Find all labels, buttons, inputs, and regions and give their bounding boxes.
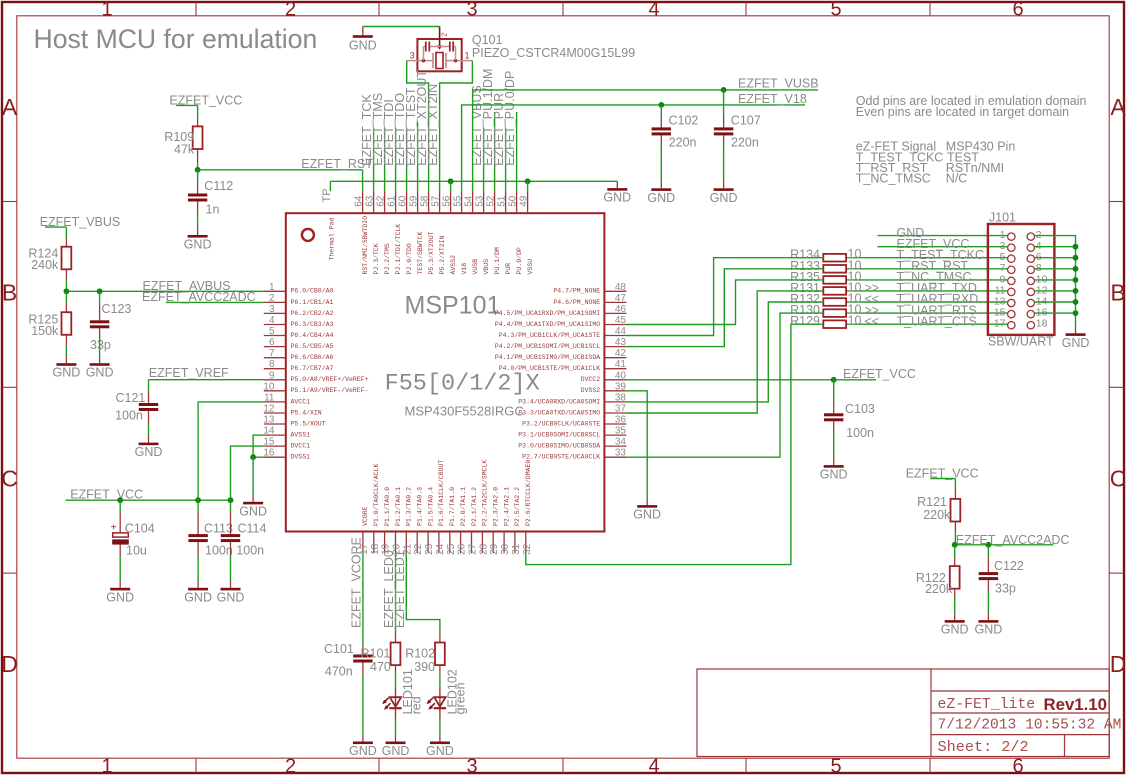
svg-text:R121: R121 bbox=[917, 495, 947, 509]
svg-text:GND: GND bbox=[1062, 336, 1090, 350]
pin wire C122 top bbox=[987, 558, 989, 572]
svg-text:GND: GND bbox=[975, 623, 1003, 637]
svg-text:EZFET_AVCC2ADC: EZFET_AVCC2ADC bbox=[956, 533, 1070, 547]
wire R122 to GND bbox=[954, 598, 956, 613]
svg-text:C107: C107 bbox=[731, 113, 761, 127]
svg-text:D: D bbox=[1110, 651, 1126, 677]
MCU pin 32 stub bbox=[522, 460, 533, 555]
svg-text:P4.5/PM_UCA1RXD/PM_UCA1SOMI: P4.5/PM_UCA1RXD/PM_UCA1SOMI bbox=[495, 310, 600, 317]
wire AVBUS junction down to R125 bbox=[65, 291, 67, 303]
MCU pin 36 stub bbox=[522, 415, 626, 428]
svg-text:C104: C104 bbox=[125, 521, 155, 535]
svg-text:45: 45 bbox=[615, 315, 627, 326]
svg-text:43: 43 bbox=[615, 337, 627, 348]
svg-text:33: 33 bbox=[615, 448, 627, 459]
wire XT2IN from crystal pin1 bbox=[440, 61, 473, 192]
J101 pin 13 pad bbox=[994, 295, 1015, 307]
svg-text:B: B bbox=[1110, 280, 1125, 306]
J101 pin 1 pad bbox=[1000, 229, 1015, 241]
MCU pin 55 stub bbox=[453, 191, 468, 274]
wire T_NC_TMSC resistor to J101 pin 9 bbox=[846, 279, 1008, 281]
wire EZFET_PU.1/DM to pin 52 bbox=[494, 112, 496, 191]
MCU pin 35 stub bbox=[518, 426, 626, 439]
ground GND below LED102 bbox=[426, 735, 454, 758]
MCU pin 59 stub bbox=[409, 191, 424, 274]
resistor R130 10 bbox=[790, 303, 861, 318]
capacitor C103 100n bbox=[824, 402, 875, 440]
svg-text:P1.1/TA0.0: P1.1/TA0.0 bbox=[384, 487, 391, 526]
MCU pin 49 stub bbox=[519, 191, 534, 274]
svg-text:EZFET_V18: EZFET_V18 bbox=[738, 92, 807, 106]
svg-text:9: 9 bbox=[269, 370, 275, 381]
wire R121 to AVCC2ADC bbox=[954, 532, 956, 545]
pin wire C121 bottom bbox=[148, 411, 150, 423]
svg-text:30: 30 bbox=[500, 543, 511, 555]
capacitor C104 10u polarized bbox=[111, 521, 155, 557]
svg-text:390: 390 bbox=[414, 660, 435, 674]
svg-text:GND: GND bbox=[710, 191, 738, 205]
svg-text:GND: GND bbox=[53, 366, 81, 380]
svg-text:Sheet: 2/2: Sheet: 2/2 bbox=[938, 738, 1029, 756]
svg-text:100n: 100n bbox=[115, 409, 143, 423]
wire T_UART_RTS resistor to J101 pin 15 bbox=[846, 312, 1008, 314]
J101 pin 14 pad bbox=[1027, 295, 1048, 307]
wire AVCC2ADC to R122 bbox=[954, 545, 956, 557]
MCU pin 61 stub bbox=[387, 191, 402, 274]
net EZFET_VCC wire from pin 40 bbox=[626, 379, 876, 381]
svg-text:TEST/SBWTCK: TEST/SBWTCK bbox=[417, 231, 424, 274]
J101 pin 10 pad bbox=[1027, 273, 1048, 285]
svg-text:17: 17 bbox=[994, 318, 1006, 330]
svg-text:C121: C121 bbox=[116, 391, 146, 405]
resistor R102 390 bbox=[405, 643, 445, 674]
wire GND bus from TP bbox=[330, 180, 617, 182]
svg-text:A: A bbox=[2, 94, 18, 120]
pin wire C101 bottom bbox=[362, 663, 364, 677]
wire J101 pin 14 to rail bbox=[1035, 301, 1076, 303]
resistor R135 10 bbox=[790, 269, 861, 284]
svg-text:P1.2/TA0.1: P1.2/TA0.1 bbox=[395, 487, 402, 526]
svg-text:AVSS2: AVSS2 bbox=[450, 255, 457, 275]
svg-text:PJ.1/TDI/TCLK: PJ.1/TDI/TCLK bbox=[395, 224, 402, 275]
wire R133 to MCU pin 43 bbox=[626, 269, 823, 347]
svg-text:R129: R129 bbox=[790, 314, 820, 328]
ground GND below R122 bbox=[941, 613, 969, 636]
svg-text:VUSB: VUSB bbox=[472, 259, 479, 275]
svg-text:C103: C103 bbox=[845, 402, 875, 416]
junction EZFET_VUSB C107 bbox=[721, 87, 727, 93]
svg-text:24: 24 bbox=[435, 543, 446, 555]
title block sheet divider bbox=[1064, 735, 1066, 757]
net EZFET_RST wire bbox=[198, 169, 363, 171]
svg-text:32: 32 bbox=[522, 543, 533, 555]
ground GND below pin39 bbox=[633, 498, 661, 521]
svg-text:P5.2/XT2IN: P5.2/XT2IN bbox=[439, 235, 446, 274]
net label EZFET_VCC at R121 bbox=[906, 466, 979, 480]
ground GND below LED101 bbox=[382, 735, 410, 758]
svg-text:GND: GND bbox=[820, 468, 848, 482]
svg-text:P4.0/PM_UCB1STE/PM_UCA1CLK: P4.0/PM_UCB1STE/PM_UCA1CLK bbox=[499, 365, 601, 372]
svg-text:4: 4 bbox=[648, 0, 659, 20]
wire C107 to GND bbox=[723, 146, 725, 182]
note text pins domains bbox=[856, 94, 1087, 119]
pin wire C107 top bbox=[723, 116, 725, 128]
wire EZFET_RST down to pin 64 bbox=[362, 170, 364, 191]
svg-text:P6.0/CB0/A0: P6.0/CB0/A0 bbox=[291, 288, 334, 295]
MCU pin 43 stub bbox=[495, 337, 627, 350]
svg-text:12: 12 bbox=[263, 404, 275, 415]
MCU pin 58 stub bbox=[420, 191, 435, 274]
wire DVSS1 to GND bbox=[252, 457, 254, 495]
net EZFET_AVCC2ADC wire right bbox=[955, 544, 1054, 546]
svg-text:220k: 220k bbox=[923, 508, 951, 522]
resistor R122 220k bbox=[916, 566, 960, 596]
MCU pin 4 stub bbox=[264, 315, 334, 328]
pin wire C102 top bbox=[660, 116, 662, 128]
svg-text:DVCC1: DVCC1 bbox=[291, 443, 311, 450]
svg-text:47k: 47k bbox=[174, 143, 195, 157]
wire R124 to AVBUS junction bbox=[65, 280, 67, 291]
svg-text:C102: C102 bbox=[669, 113, 699, 127]
svg-text:P6.4/CB4/A4: P6.4/CB4/A4 bbox=[291, 332, 334, 339]
svg-text:18: 18 bbox=[1036, 318, 1048, 330]
junction rail bbox=[1073, 310, 1079, 316]
MCU pin 2 stub bbox=[264, 293, 334, 306]
wire J101 pin 8 to rail bbox=[1035, 268, 1076, 270]
MCU pin 11 stub bbox=[264, 392, 310, 405]
wire VCC rail to C113 bbox=[197, 500, 199, 512]
svg-text:P4.6/PM_NONE: P4.6/PM_NONE bbox=[553, 299, 600, 306]
pin wire R102 bottom bbox=[439, 665, 441, 673]
wire EZFET_PUR to pin 51 bbox=[505, 128, 507, 191]
svg-text:470n: 470n bbox=[325, 665, 353, 679]
svg-text:220n: 220n bbox=[731, 135, 759, 149]
svg-text:62: 62 bbox=[376, 195, 387, 207]
svg-text:47: 47 bbox=[615, 293, 627, 304]
MCU pin 12 stub bbox=[263, 404, 321, 417]
junction VCC rail C114 bbox=[228, 497, 234, 503]
svg-text:P3.0/UCB0SIMO/UCB0SDA: P3.0/UCB0SIMO/UCB0SDA bbox=[518, 443, 600, 450]
svg-text:Host MCU for emulation: Host MCU for emulation bbox=[34, 24, 318, 54]
MCU pin 54 stub bbox=[464, 191, 479, 274]
net label EZFET_VCC bbox=[169, 93, 242, 107]
svg-text:V18: V18 bbox=[461, 263, 468, 275]
wire C103 to GND bbox=[833, 432, 835, 458]
title block outline bbox=[697, 669, 1109, 757]
svg-text:2: 2 bbox=[285, 0, 296, 20]
wire DVCC1 pin 15 to VCC rail bbox=[231, 446, 264, 500]
svg-text:60: 60 bbox=[398, 195, 409, 207]
wire EZFET_VCC to R109 bbox=[197, 105, 199, 119]
MCU pin 22 stub bbox=[413, 487, 424, 555]
junction VCC rail C104 bbox=[117, 497, 123, 503]
ground GND below C112 bbox=[184, 228, 212, 251]
wire J101 pin 10 to rail bbox=[1035, 279, 1076, 281]
ground GND below C121 bbox=[135, 436, 163, 459]
junction VCC rail C113 bbox=[195, 497, 201, 503]
J101 pin 9 pad bbox=[1000, 273, 1015, 285]
svg-text:GND: GND bbox=[106, 590, 134, 604]
pin wire R124 top bbox=[65, 238, 67, 247]
svg-text:4: 4 bbox=[269, 315, 275, 326]
svg-text:49: 49 bbox=[519, 195, 530, 207]
resistor R121 220k bbox=[917, 495, 960, 522]
J101 pin 12 pad bbox=[1027, 284, 1048, 296]
wire V18 junction to C102 bbox=[660, 105, 662, 116]
MCU pin 6 stub bbox=[264, 337, 334, 350]
svg-text:10u: 10u bbox=[126, 544, 147, 558]
MCU pin 15 stub bbox=[263, 437, 310, 450]
svg-text:P2.6/RTCCLK/DMAE0: P2.6/RTCCLK/DMAE0 bbox=[525, 460, 532, 526]
resistor R109 47k bbox=[164, 126, 202, 156]
svg-text:C: C bbox=[1, 466, 18, 492]
svg-text:48: 48 bbox=[615, 282, 627, 293]
svg-text:56: 56 bbox=[442, 195, 453, 207]
wire R102 to LED102 bbox=[439, 673, 441, 688]
svg-text:42: 42 bbox=[615, 348, 627, 359]
svg-text:1: 1 bbox=[269, 282, 275, 293]
svg-text:EZFET_XT2IN: EZFET_XT2IN bbox=[426, 84, 440, 166]
ground GND below C102 bbox=[647, 182, 675, 205]
MCU pin 33 stub bbox=[522, 448, 626, 461]
svg-text:25: 25 bbox=[446, 543, 457, 555]
svg-text:57: 57 bbox=[431, 195, 442, 207]
svg-text:P2.3/TA2.0: P2.3/TA2.0 bbox=[493, 487, 500, 526]
wire EZFET_VUSB net bbox=[473, 90, 818, 191]
wire net EZFET_VCC to J101 pin 3 bbox=[878, 246, 1008, 248]
svg-text:P2.2/TA2CLK/SMCLK: P2.2/TA2CLK/SMCLK bbox=[482, 460, 489, 526]
svg-text:GND: GND bbox=[184, 590, 212, 604]
wire EZFET_TDO to pin 60 bbox=[406, 128, 408, 191]
svg-text:33p: 33p bbox=[90, 338, 111, 352]
svg-text:P3.1/UCB0SOMI/UCB0SCL: P3.1/UCB0SOMI/UCB0SCL bbox=[518, 432, 600, 439]
MCU pin 57 stub bbox=[431, 191, 446, 274]
pin wire C103 bottom bbox=[833, 421, 835, 432]
svg-text:28: 28 bbox=[478, 543, 489, 555]
wire C113 to GND bbox=[197, 556, 199, 581]
MCU pin 44 stub bbox=[499, 326, 627, 339]
svg-text:AVCC1: AVCC1 bbox=[291, 398, 311, 405]
MCU pin 30 stub bbox=[500, 487, 511, 555]
capacitor C114 100n bbox=[221, 521, 267, 557]
MCU pin 14 stub bbox=[263, 426, 310, 439]
svg-text:4: 4 bbox=[648, 756, 659, 775]
wire EZFET_TCK to pin 63 bbox=[373, 128, 375, 191]
svg-text:2: 2 bbox=[441, 33, 448, 37]
ground GND below C122 bbox=[975, 613, 1003, 636]
svg-text:1: 1 bbox=[101, 0, 112, 20]
J101 pin 8 pad bbox=[1027, 262, 1042, 274]
svg-text:23: 23 bbox=[424, 543, 435, 555]
wire T_TEST_TCKC resistor to J101 pin 5 bbox=[846, 257, 1008, 259]
resistor R129 10 bbox=[790, 314, 861, 329]
svg-text:R101: R101 bbox=[361, 646, 391, 660]
svg-text:5: 5 bbox=[830, 0, 841, 20]
wire XT2OUT from crystal pin3 bbox=[407, 61, 429, 192]
wire R134 to MCU pin 44 bbox=[626, 258, 823, 336]
svg-text:220k: 220k bbox=[925, 582, 953, 596]
svg-text:P6.5/CB5/A5: P6.5/CB5/A5 bbox=[291, 343, 334, 350]
svg-text:1: 1 bbox=[465, 51, 470, 61]
MCU U-MSP101 body bbox=[286, 213, 605, 531]
MCU pin 40 stub bbox=[581, 370, 627, 383]
MCU pin 51 stub bbox=[497, 191, 512, 274]
wire R131 to MCU pin 37 bbox=[626, 291, 823, 413]
svg-text:P1.7/TA1.0: P1.7/TA1.0 bbox=[449, 487, 456, 526]
svg-text:59: 59 bbox=[409, 195, 420, 207]
capacitor C113 100n bbox=[188, 521, 233, 557]
pin wire C112 top bbox=[197, 182, 199, 194]
title block row lines bbox=[931, 691, 1109, 735]
capacitor C102 220n bbox=[652, 113, 699, 149]
svg-text:PJ.3/TCK: PJ.3/TCK bbox=[373, 243, 380, 274]
pin wire C122 bottom bbox=[987, 580, 989, 592]
svg-text:GND: GND bbox=[349, 744, 377, 758]
junction rail bbox=[1073, 288, 1079, 294]
MCU pin 39 stub bbox=[581, 381, 627, 394]
svg-text:22: 22 bbox=[413, 543, 424, 555]
pin wire R122 top bbox=[954, 557, 956, 566]
svg-text:GND: GND bbox=[86, 366, 114, 380]
svg-text:P4.4/PM_UCA1TXD/PM_UCA1SIMO: P4.4/PM_UCA1TXD/PM_UCA1SIMO bbox=[495, 321, 600, 328]
svg-text:GND: GND bbox=[135, 445, 163, 459]
MCU pin 31 stub bbox=[511, 487, 522, 555]
wire R101 to LED101 bbox=[395, 673, 397, 688]
svg-text:Even pins are located in targe: Even pins are located in target domain bbox=[856, 105, 1069, 119]
wire C101 to GND bbox=[362, 676, 364, 735]
svg-text:3: 3 bbox=[466, 0, 477, 20]
svg-text:GND: GND bbox=[184, 238, 212, 252]
svg-text:GND: GND bbox=[633, 508, 661, 522]
wire LED1 pin 21 jog to R102 bbox=[406, 553, 440, 634]
wire R109 to junction bbox=[197, 162, 199, 170]
svg-text:7: 7 bbox=[269, 348, 275, 359]
svg-text:Thermal Pad: Thermal Pad bbox=[329, 217, 336, 260]
svg-text:58: 58 bbox=[420, 195, 431, 207]
svg-text:7/12/2013 10:55:32 AM: 7/12/2013 10:55:32 AM bbox=[938, 718, 1122, 734]
crystal Q101 body bbox=[407, 27, 473, 72]
title block divider vertical bbox=[930, 669, 932, 757]
svg-text:10: 10 bbox=[848, 314, 862, 328]
ground GND top bus bbox=[603, 181, 631, 204]
svg-text:13: 13 bbox=[263, 415, 275, 426]
MCU pin 19 stub bbox=[381, 487, 392, 555]
LED LED102 green bbox=[427, 669, 468, 718]
svg-text:GND: GND bbox=[603, 191, 631, 205]
capacitor C101 470n bbox=[324, 642, 373, 679]
wire net GND to J101 pin 1 bbox=[878, 235, 1008, 237]
MCU pin 9 stub bbox=[264, 370, 369, 383]
svg-text:240k: 240k bbox=[31, 258, 59, 272]
svg-text:PU.1/DM: PU.1/DM bbox=[494, 247, 501, 274]
pin wire R102 top bbox=[439, 634, 441, 643]
svg-text:18: 18 bbox=[370, 543, 381, 555]
junction AVBUS C123 bbox=[97, 288, 103, 294]
junction GND pin 56 bbox=[448, 178, 454, 184]
svg-text:38: 38 bbox=[615, 392, 627, 403]
MCU pin 56 stub bbox=[442, 191, 457, 274]
pin wire R121 bottom bbox=[954, 522, 956, 533]
svg-text:RST/NMI/SBWTDIO: RST/NMI/SBWTDIO bbox=[362, 216, 369, 275]
capacitor C107 220n bbox=[714, 113, 761, 149]
svg-text:46: 46 bbox=[615, 304, 627, 315]
ground GND below C114 bbox=[217, 581, 245, 604]
svg-text:P6.1/CB1/A1: P6.1/CB1/A1 bbox=[291, 299, 334, 306]
wire C112 to GND bbox=[197, 212, 199, 228]
svg-text:C123: C123 bbox=[102, 302, 132, 316]
MCU pin 23 stub bbox=[424, 487, 435, 555]
ground GND below C123 bbox=[86, 356, 114, 379]
MCU pin 13 stub bbox=[263, 415, 325, 428]
junction VCC C103 bbox=[831, 377, 837, 383]
svg-text:29: 29 bbox=[489, 543, 500, 555]
MCU pin 48 stub bbox=[553, 282, 626, 295]
pin wire R109 top bbox=[197, 119, 199, 127]
svg-text:SBW/UART: SBW/UART bbox=[988, 335, 1054, 349]
MCU pin 63 stub bbox=[365, 191, 380, 274]
pin wire R122 bottom bbox=[954, 589, 956, 598]
junction rail bbox=[1073, 255, 1079, 261]
frame row ticks left bbox=[2, 201, 17, 203]
svg-text:T_NC_TMSC: T_NC_TMSC bbox=[856, 172, 931, 186]
svg-text:1: 1 bbox=[101, 756, 112, 775]
svg-text:64: 64 bbox=[354, 195, 365, 207]
svg-text:B: B bbox=[2, 280, 17, 306]
svg-text:C113: C113 bbox=[204, 521, 233, 535]
MCU pin 3 stub bbox=[264, 304, 334, 317]
svg-text:D: D bbox=[1, 651, 18, 677]
svg-text:VCORE: VCORE bbox=[362, 506, 369, 526]
wire LED101 to GND bbox=[395, 719, 397, 735]
capacitor C112 1n bbox=[188, 179, 233, 216]
svg-text:36: 36 bbox=[615, 415, 627, 426]
svg-text:C114: C114 bbox=[238, 521, 267, 535]
svg-text:P6.2/CB2/A2: P6.2/CB2/A2 bbox=[291, 310, 334, 317]
MCU pin 16 stub bbox=[263, 448, 310, 461]
svg-text:EZFET_AVCC2ADC: EZFET_AVCC2ADC bbox=[142, 290, 256, 304]
wire C114 to GND bbox=[230, 556, 232, 581]
wire EZFET_V18 net bbox=[462, 105, 805, 191]
pin wire R101 top bbox=[395, 634, 397, 643]
wire EZFET_TDI to pin 61 bbox=[395, 128, 397, 191]
svg-text:P5.5/XOUT: P5.5/XOUT bbox=[291, 420, 326, 427]
wire R132 to MCU pin 38 bbox=[626, 302, 823, 402]
svg-text:P2.4/TA2.1: P2.4/TA2.1 bbox=[503, 487, 510, 526]
wire GND to pin 56 bbox=[450, 181, 452, 191]
wire C123 from AVBUS junction bbox=[99, 291, 101, 305]
svg-text:55: 55 bbox=[453, 195, 464, 207]
ground GND below C107 bbox=[710, 182, 738, 205]
wire VCC to R121 bbox=[954, 479, 956, 490]
svg-text:GND: GND bbox=[941, 623, 969, 637]
wire AVSS1 pin 14 to DVSS1 bbox=[253, 435, 264, 457]
MCU pin 29 stub bbox=[489, 487, 500, 555]
svg-text:P4.1/PM_UCB1SIMO/PM_UCB1SDA: P4.1/PM_UCB1SIMO/PM_UCB1SDA bbox=[495, 354, 600, 361]
wire VCORE pin 17 down bbox=[362, 553, 364, 646]
svg-text:C112: C112 bbox=[204, 179, 233, 193]
wire DVSS2 pin 39 to GND bbox=[626, 391, 647, 499]
thermal pad circle bbox=[302, 229, 314, 241]
svg-text:Rev1.10: Rev1.10 bbox=[1044, 695, 1107, 714]
junction AVBUS left bbox=[64, 288, 70, 294]
wire R129 to MCU pin 32 bbox=[526, 324, 824, 564]
svg-text:EZFET_LED1: EZFET_LED1 bbox=[393, 550, 407, 628]
svg-text:EZFET_VCC: EZFET_VCC bbox=[70, 488, 143, 502]
capacitor C121 100n bbox=[115, 391, 158, 423]
svg-text:PU.0/DP: PU.0/DP bbox=[516, 247, 523, 274]
svg-text:AVSS1: AVSS1 bbox=[291, 432, 311, 439]
svg-text:P6.6/CB6/A6: P6.6/CB6/A6 bbox=[291, 354, 334, 361]
